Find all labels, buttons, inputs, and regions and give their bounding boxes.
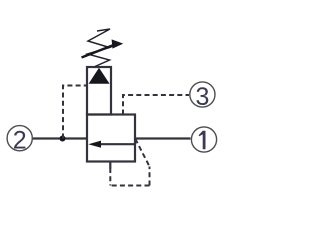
port 1 circle xyxy=(191,127,216,152)
svg-text:3: 3 xyxy=(195,83,209,111)
drain loop bottom horizontal (dashed) xyxy=(110,185,149,187)
port 3 circle xyxy=(190,82,215,111)
spring xyxy=(88,29,111,67)
pilot line (dashed) from junction to poppet xyxy=(63,86,87,139)
drain loop left vertical (dashed) xyxy=(109,168,111,186)
svg-text:2: 2 xyxy=(13,127,27,155)
pilot poppet box xyxy=(87,67,111,115)
port 2 circle xyxy=(7,126,32,155)
drain stub below body xyxy=(109,162,111,169)
adjustment arrow xyxy=(82,39,124,57)
wire port 2 to body xyxy=(33,137,88,139)
port 3 pilot line (dashed) xyxy=(123,95,189,115)
flow arrow in main body xyxy=(88,141,135,148)
poppet triangle xyxy=(89,68,110,84)
drain loop right vertical (dashed) xyxy=(149,167,151,186)
wire body to port 1 xyxy=(135,137,191,139)
junction dot xyxy=(60,136,66,142)
drain diagonal (dashed) xyxy=(135,139,149,167)
main valve body U1 xyxy=(87,115,135,162)
